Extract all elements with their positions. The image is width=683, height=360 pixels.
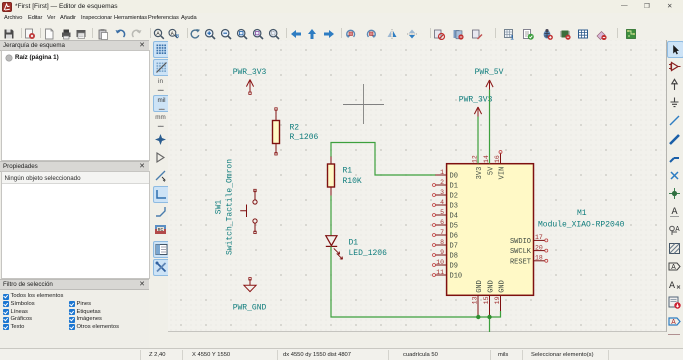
pin 16 VIN bbox=[500, 153, 502, 164]
toolbar open pcb editor bbox=[627, 30, 636, 39]
toolbar save bbox=[5, 30, 14, 39]
toolbar zoom in bbox=[206, 30, 216, 40]
pin 12 3V3 bbox=[477, 153, 479, 164]
cursor crosshair bbox=[343, 84, 384, 124]
main toolbar bbox=[0, 26, 683, 40]
toolbar edit symbol bbox=[473, 30, 483, 40]
left pins 1-11 (D0-D10) bbox=[433, 169, 463, 281]
svg-text:SWCLK: SWCLK bbox=[510, 248, 532, 256]
svg-text:18: 18 bbox=[535, 255, 543, 262]
left mini toolbar bbox=[0, 0, 683, 1]
svg-text:B: B bbox=[176, 33, 180, 40]
svg-text:R_1206: R_1206 bbox=[290, 133, 319, 142]
pin 20 SWCLK bbox=[534, 250, 546, 252]
svg-text:6: 6 bbox=[440, 219, 444, 226]
svg-text:A: A bbox=[675, 226, 680, 234]
toolbar rotate ccw bbox=[346, 30, 355, 38]
svg-text:RESET: RESET bbox=[510, 258, 531, 266]
toolbar mirror v bbox=[407, 30, 417, 39]
junction at pin 15 bbox=[487, 315, 491, 319]
svg-text:5: 5 bbox=[440, 209, 444, 216]
btn hier label bbox=[667, 314, 682, 329]
btn add text bbox=[667, 277, 682, 292]
title bar bbox=[0, 0, 683, 13]
svg-text:LED_1206: LED_1206 bbox=[349, 249, 388, 258]
btn add ground bbox=[667, 95, 682, 110]
pin 4 D3 bbox=[435, 204, 446, 206]
toolbar find replace bbox=[169, 29, 180, 39]
pin 1 D0 bbox=[435, 174, 446, 176]
svg-text:SWDIO: SWDIO bbox=[510, 238, 531, 246]
bottom pins 13,15,19 bbox=[472, 280, 507, 315]
toolbar assign footprints bbox=[560, 31, 571, 40]
svg-text:R2: R2 bbox=[290, 124, 300, 133]
checkboxes: top offset within lpanel = y-40 bbox=[3, 294, 9, 300]
btn hidden pins bbox=[153, 150, 168, 165]
svg-text:R1: R1 bbox=[343, 166, 353, 175]
svg-text:PWR_3V3: PWR_3V3 bbox=[233, 68, 267, 77]
wire PWR_3V3 to pin 12 bbox=[477, 117, 479, 164]
svg-text:17: 17 bbox=[535, 234, 543, 241]
toolbar nav back bbox=[291, 30, 301, 38]
svg-text:16: 16 bbox=[494, 155, 501, 163]
btn 45 wires bbox=[153, 204, 168, 219]
toolbar page settings bbox=[46, 29, 54, 39]
svg-text:D8: D8 bbox=[450, 253, 458, 261]
svg-text:A: A bbox=[668, 281, 674, 292]
svg-text:11: 11 bbox=[436, 269, 444, 276]
toolbar redo bbox=[132, 30, 141, 37]
svg-text:D3: D3 bbox=[450, 203, 458, 211]
toolbar annotate bbox=[505, 30, 515, 42]
btn units mils bbox=[153, 95, 170, 112]
toolbar bom table bbox=[579, 30, 588, 38]
pin 11 D10 bbox=[435, 274, 446, 276]
pin 14 5V bbox=[489, 153, 491, 164]
btn crosshair style bbox=[153, 132, 168, 147]
toolbar nav up bbox=[308, 29, 316, 39]
pin 19 GND bbox=[500, 295, 502, 315]
btn hv wires bbox=[153, 186, 170, 203]
btn add bus entry bbox=[667, 150, 682, 165]
toolbar plot bbox=[77, 30, 86, 39]
svg-text:R10K: R10K bbox=[343, 177, 362, 186]
btn rule area bbox=[667, 241, 682, 256]
svg-text:A: A bbox=[671, 319, 676, 327]
svg-text:PWR_GND: PWR_GND bbox=[233, 304, 267, 313]
pin 7 D6 bbox=[435, 234, 446, 236]
svg-text:PWR_5V: PWR_5V bbox=[475, 68, 504, 77]
btn no connect bbox=[667, 168, 682, 183]
toolbar zoom selection bbox=[270, 30, 280, 40]
wire GND rail drop to edge bbox=[489, 317, 491, 332]
btn units inches bbox=[153, 77, 168, 92]
btn grid visibility bbox=[153, 41, 170, 58]
svg-text:D9: D9 bbox=[450, 263, 458, 271]
btn add label bbox=[667, 204, 682, 219]
toolbar symbol check bbox=[435, 30, 445, 40]
btn add power port bbox=[667, 77, 682, 92]
pin 8 D7 bbox=[435, 244, 446, 246]
svg-text:GND: GND bbox=[476, 280, 484, 293]
resistor R2 bbox=[273, 108, 319, 155]
btn add bus bbox=[667, 132, 682, 147]
svg-text:D5: D5 bbox=[450, 223, 458, 231]
switch SW1 bbox=[215, 159, 258, 255]
schematic canvas bbox=[168, 40, 667, 332]
toolbar zoom out bbox=[222, 30, 232, 40]
svg-text:13: 13 bbox=[472, 296, 479, 304]
svg-text:5V: 5V bbox=[487, 166, 495, 175]
pin 2 D1 bbox=[435, 184, 446, 186]
pin 13 GND bbox=[477, 295, 479, 315]
toolbar undo bbox=[116, 30, 125, 37]
toolbar cleanup bbox=[597, 32, 607, 41]
pin 15 GND bbox=[489, 295, 491, 315]
toolbar rotate cw bbox=[367, 30, 376, 38]
svg-text:RC: RC bbox=[158, 227, 164, 233]
svg-text:2: 2 bbox=[440, 179, 444, 186]
svg-text:Switch_Tactile_Omron: Switch_Tactile_Omron bbox=[226, 159, 235, 255]
svg-text:D1: D1 bbox=[349, 238, 359, 247]
btn free angle wires bbox=[153, 168, 168, 183]
btn global label bbox=[667, 259, 682, 274]
svg-text:D2: D2 bbox=[450, 193, 458, 201]
toolbar refresh bbox=[191, 29, 200, 38]
toolbar library check bbox=[454, 30, 464, 40]
toolbar print bbox=[62, 30, 71, 40]
toolbar paste bbox=[99, 29, 108, 40]
power symbol PWR_GND bbox=[244, 278, 256, 292]
svg-text:D1: D1 bbox=[450, 183, 458, 191]
wire PWR_5V to pin 14 bbox=[489, 90, 491, 164]
svg-text:3: 3 bbox=[440, 189, 444, 196]
toolbar erc dialog bbox=[524, 30, 534, 40]
toolbar zoom page bbox=[238, 30, 248, 40]
svg-text:1: 1 bbox=[440, 169, 444, 176]
svg-text:PWR_3V3: PWR_3V3 bbox=[459, 96, 493, 105]
svg-text:A: A bbox=[171, 31, 174, 37]
svg-text:D10: D10 bbox=[450, 273, 463, 281]
toolbar bug report bbox=[544, 29, 553, 40]
btn hierarchy panel bbox=[153, 241, 170, 258]
svg-text:19: 19 bbox=[494, 296, 501, 304]
status bar bbox=[0, 348, 683, 360]
btn select tool bbox=[667, 41, 683, 58]
wire R1 top to U1 pin D0 bbox=[331, 143, 436, 176]
left panel stack bbox=[0, 40, 149, 348]
junction at pin 13 bbox=[476, 315, 480, 319]
power symbol PWR_3V3 (left) bbox=[246, 80, 253, 95]
menu bar bbox=[0, 13, 683, 26]
btn properties panel bbox=[153, 259, 170, 276]
btn add junction bbox=[667, 186, 682, 201]
right mini toolbar bbox=[0, 0, 683, 1]
svg-text:20: 20 bbox=[535, 244, 543, 251]
btn grid overrides bbox=[153, 59, 170, 76]
btn units mm bbox=[153, 113, 168, 128]
svg-text:GND: GND bbox=[498, 280, 506, 293]
svg-text:D7: D7 bbox=[450, 243, 458, 251]
right pins 17,20,18 bbox=[510, 234, 548, 266]
toolbar schematic setup bbox=[26, 29, 36, 39]
svg-text:Module_XIAO-RP2040: Module_XIAO-RP2040 bbox=[538, 221, 625, 230]
wire R1 bottom to D1 bbox=[330, 196, 332, 237]
toolbar find bbox=[154, 29, 163, 38]
toolbar zoom objects bbox=[254, 30, 264, 40]
module U1 body bbox=[447, 164, 534, 296]
pin 10 D9 bbox=[435, 264, 446, 266]
svg-text:8: 8 bbox=[440, 239, 444, 246]
svg-text:15: 15 bbox=[483, 296, 490, 304]
svg-text:D0: D0 bbox=[450, 173, 458, 181]
svg-text:M1: M1 bbox=[577, 209, 587, 218]
btn add sheet bbox=[667, 295, 682, 310]
svg-text:7: 7 bbox=[440, 229, 444, 236]
btn add wire bbox=[667, 113, 682, 128]
btn annotation refs bbox=[153, 223, 168, 238]
svg-text:9: 9 bbox=[440, 249, 444, 256]
svg-text:VIN: VIN bbox=[498, 167, 506, 180]
svg-text:D6: D6 bbox=[450, 233, 458, 241]
svg-text:4: 4 bbox=[440, 199, 444, 206]
toolbar nav forward bbox=[324, 30, 334, 38]
svg-text:GND: GND bbox=[487, 280, 495, 293]
pin 6 D5 bbox=[435, 224, 446, 226]
pin 3 D2 bbox=[435, 194, 446, 196]
svg-text:SW1: SW1 bbox=[215, 200, 224, 215]
btn add symbol bbox=[667, 59, 682, 74]
wire D1 to GND rail bbox=[331, 246, 501, 317]
pin 18 RESET bbox=[534, 260, 546, 262]
pin 9 D8 bbox=[435, 254, 446, 256]
svg-text:10: 10 bbox=[436, 259, 444, 266]
top pins 12,14,16 bbox=[472, 151, 507, 180]
resistor R1 bbox=[328, 157, 362, 196]
LED D1 bbox=[326, 236, 343, 260]
svg-text:A: A bbox=[671, 264, 676, 272]
svg-text:3V3: 3V3 bbox=[476, 167, 484, 180]
toolbar mirror h bbox=[388, 29, 397, 39]
pin 17 SWDIO bbox=[534, 239, 546, 241]
svg-text:D4: D4 bbox=[450, 213, 458, 221]
btn netclass flag bbox=[667, 223, 682, 238]
pin 5 D4 bbox=[435, 214, 446, 216]
